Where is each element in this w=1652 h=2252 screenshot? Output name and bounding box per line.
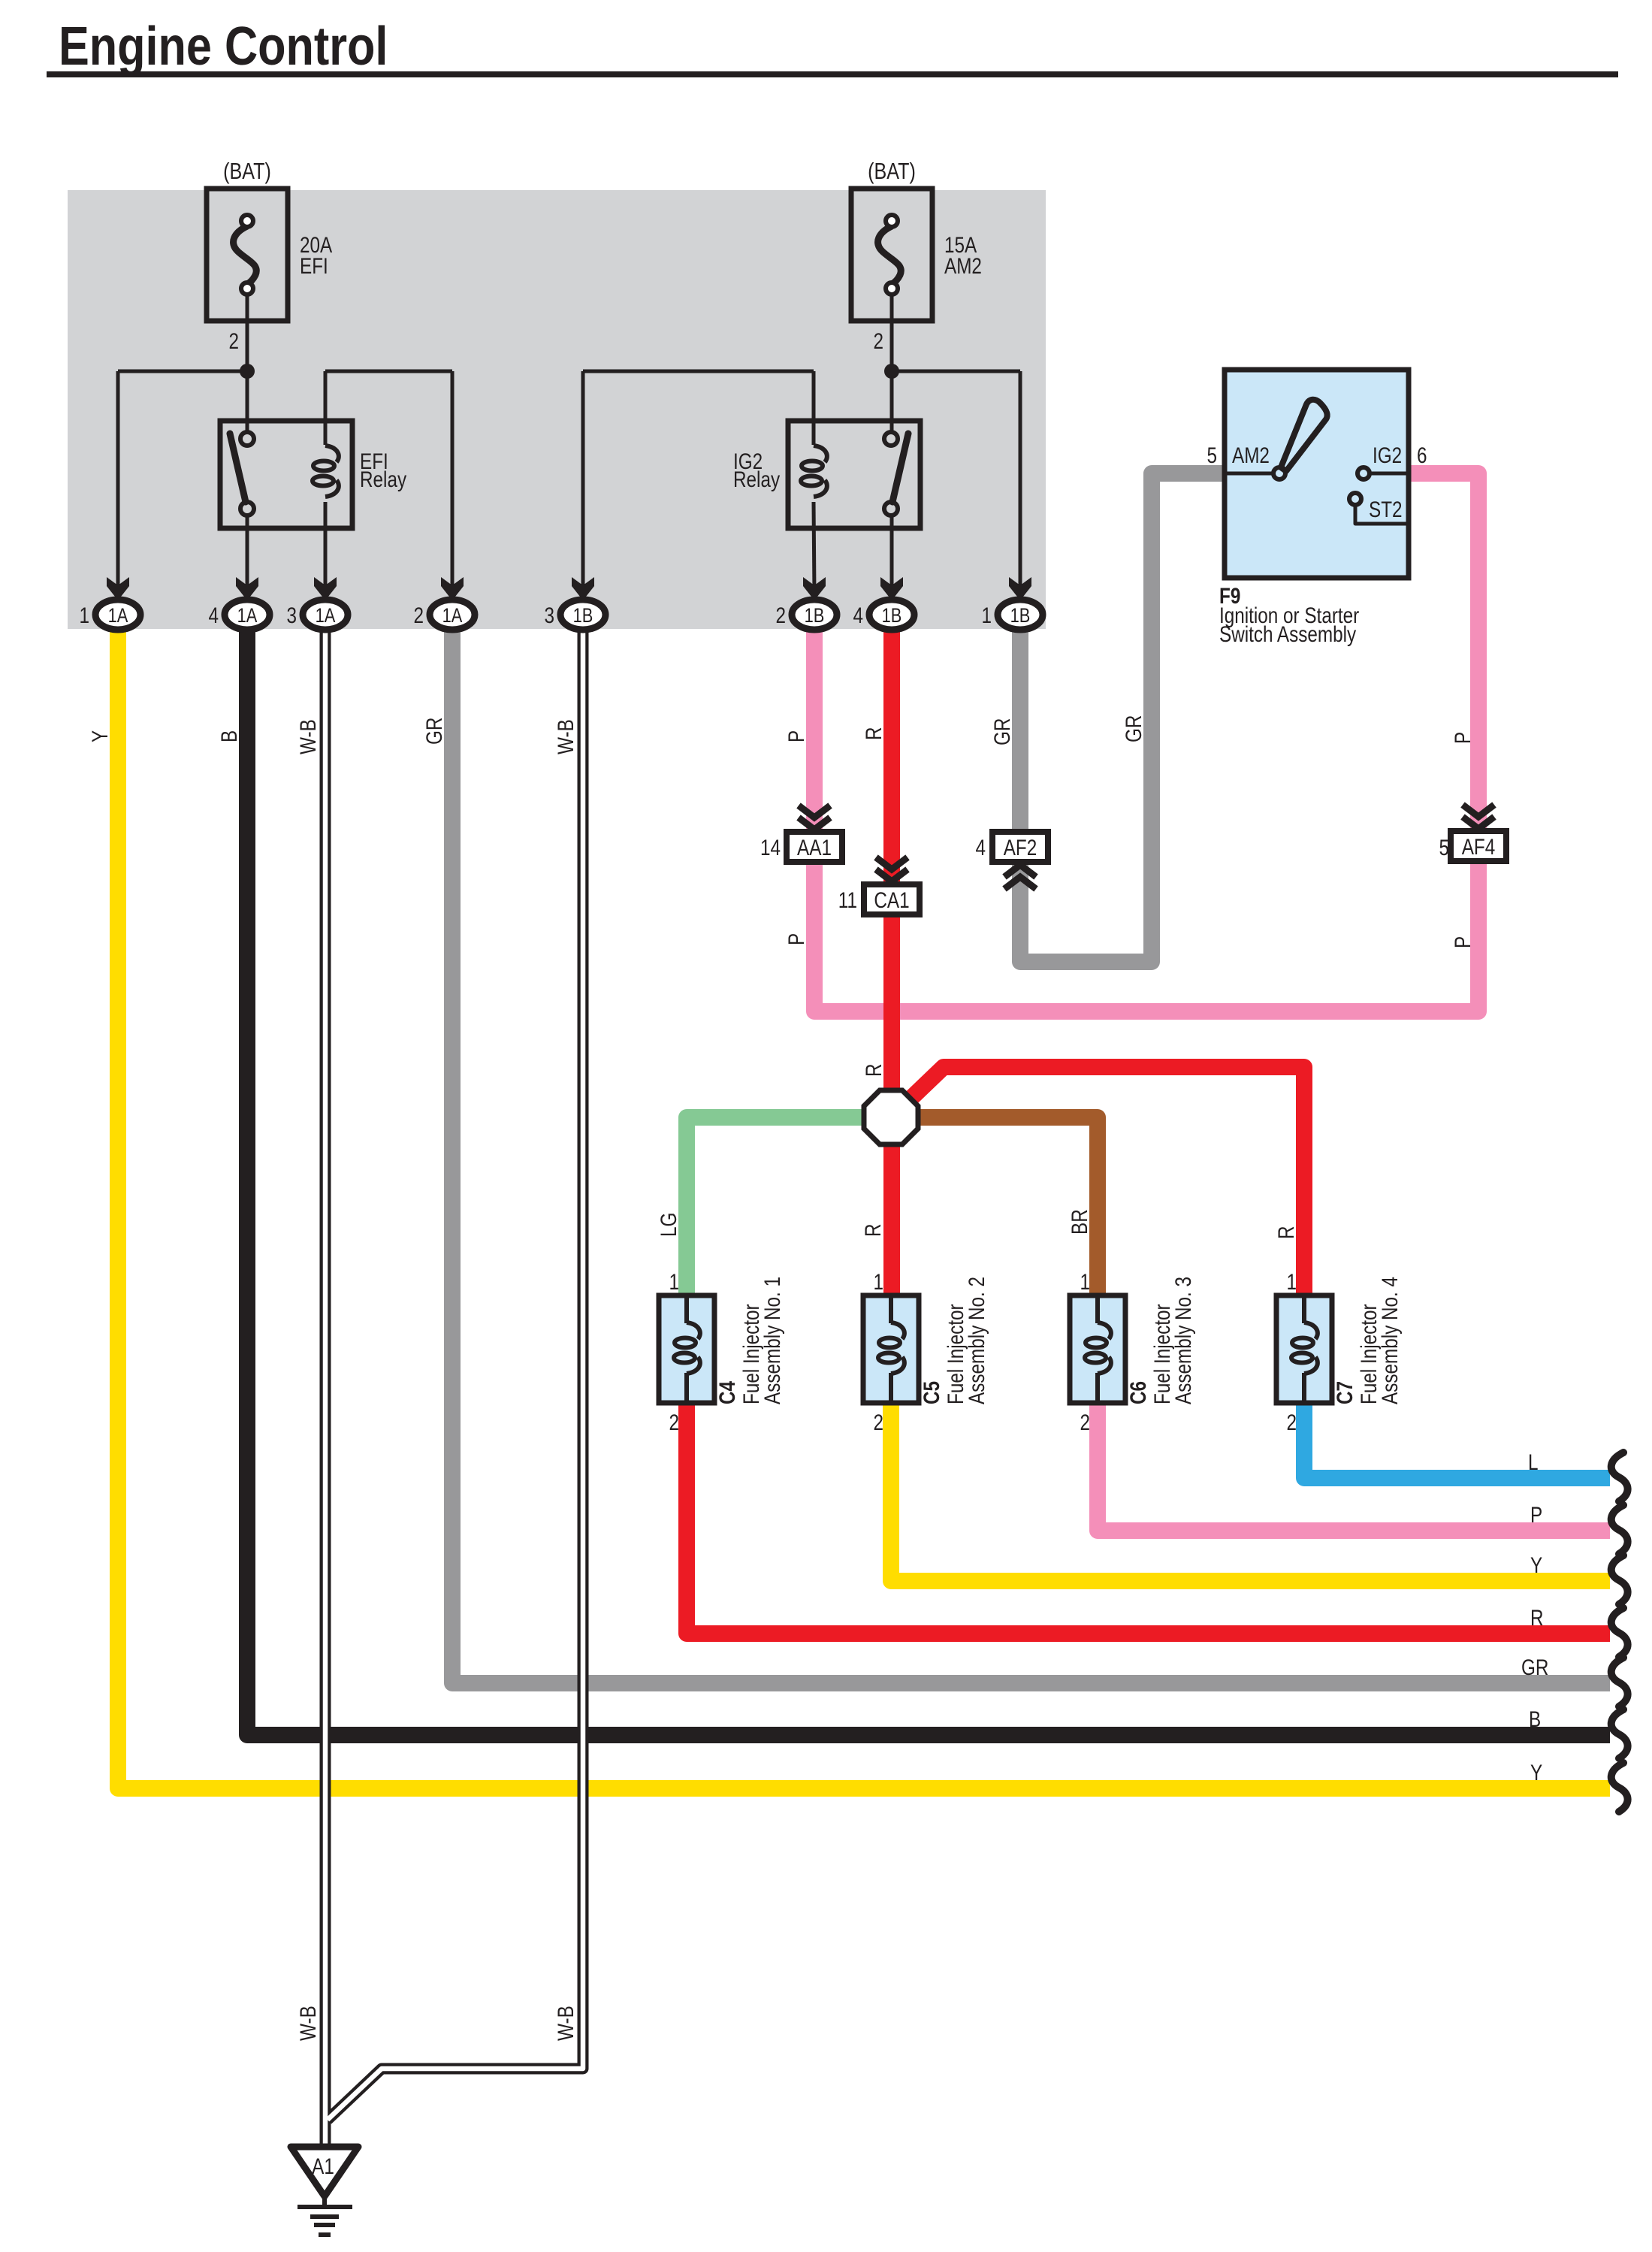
svg-text:R: R [1530, 1605, 1544, 1631]
svg-text:4: 4 [975, 835, 986, 860]
svg-text:1B: 1B [573, 605, 593, 627]
svg-text:14: 14 [760, 835, 781, 860]
wire IG2 coil top drop [812, 371, 816, 445]
relay EFI switch contact top [240, 432, 254, 446]
svg-text:Assembly No. 4: Assembly No. 4 [1377, 1277, 1403, 1404]
arrow into connector 1B pin 1 [1009, 577, 1031, 600]
svg-text:LG: LG [656, 1213, 681, 1237]
svg-text:W-B: W-B [553, 719, 578, 754]
svg-text:P: P [1450, 936, 1475, 948]
relay IG2 switch contact top [884, 432, 898, 446]
svg-text:2: 2 [228, 328, 239, 354]
ignition switch F9 box [1225, 370, 1409, 578]
wire GR AF2 to ignition AM2 [1020, 473, 1226, 962]
wire drop to 1A pin2 [451, 371, 455, 592]
chevron into AA1 [799, 806, 830, 830]
wire BR octagon to injector C6 [918, 1117, 1098, 1297]
svg-text:GR: GR [421, 718, 447, 745]
svg-text:P: P [784, 730, 809, 742]
wire L injector C7 to right edge [1304, 1401, 1610, 1478]
arrow into connector 1A pin 4 [236, 577, 258, 600]
connector 1B pin 2 oval [792, 600, 837, 630]
wire W-B 1A pin3 to ground core [323, 630, 328, 2149]
relay EFI switch blade [230, 434, 246, 502]
ground stem [322, 2196, 327, 2207]
svg-text:W-B: W-B [553, 2006, 578, 2041]
svg-text:1: 1 [981, 603, 992, 628]
svg-text:C7: C7 [1332, 1381, 1358, 1404]
connector AF4 [1451, 831, 1506, 861]
fuel injector C6 [1070, 1295, 1125, 1403]
svg-text:P: P [784, 933, 809, 945]
wire-continuation squiggle P [1611, 1505, 1628, 1554]
ground bar 3 [314, 2223, 335, 2227]
wire fuse AM2 to junction [890, 293, 894, 435]
svg-text:Assembly No. 2: Assembly No. 2 [964, 1277, 989, 1404]
relay EFI coil [313, 446, 339, 497]
svg-text:(BAT): (BAT) [868, 157, 916, 183]
wire W-B 1B pin3 elbow outer [328, 630, 583, 2120]
wire W-B 1B pin3 elbow core [328, 630, 583, 2120]
wire coil top drop [324, 371, 328, 445]
wire drop to 1B pin1 [1019, 371, 1022, 592]
wire R 1B pin4 to CA1 [883, 628, 900, 886]
connector 1B pin 1 oval [998, 600, 1043, 630]
svg-text:1: 1 [1286, 1269, 1297, 1295]
wire IG2 coil to 1B pin2 [814, 502, 814, 592]
svg-text:1: 1 [873, 1269, 883, 1295]
svg-text:2: 2 [873, 328, 883, 354]
F9 key wedge [1281, 400, 1327, 471]
svg-text:5: 5 [1439, 835, 1449, 860]
arrow into connector 1B pin 3 [572, 577, 594, 600]
fuel injector C4 [659, 1295, 714, 1403]
wire-continuation squiggle B [1611, 1709, 1628, 1758]
wire GR 1B pin1 to AF2 [1012, 628, 1028, 833]
title underline [47, 71, 1618, 77]
chevron into AF2 [1004, 865, 1036, 889]
wire R injector C4 to right edge [687, 1401, 1610, 1634]
F9 IG2 terminal line [1370, 472, 1409, 476]
svg-text:Y: Y [87, 730, 113, 742]
svg-text:2: 2 [775, 603, 786, 628]
svg-text:2: 2 [1286, 1410, 1297, 1435]
relay IG2 coil [801, 446, 827, 497]
svg-text:Y: Y [1530, 1760, 1542, 1785]
wire R octagon to injector C7 [908, 1067, 1304, 1297]
fuse 20A EFI [207, 189, 288, 321]
svg-text:W-B: W-B [295, 719, 321, 754]
svg-text:C6: C6 [1125, 1381, 1151, 1404]
svg-text:2: 2 [413, 603, 424, 628]
wire-continuation squiggle R [1611, 1608, 1628, 1657]
svg-text:BR: BR [1067, 1209, 1092, 1235]
svg-text:1A: 1A [316, 605, 336, 627]
svg-text:B: B [216, 730, 242, 742]
wire EFI coil top link [325, 370, 452, 373]
arrow into connector 1A pin 3 [314, 577, 337, 600]
svg-text:1B: 1B [1010, 605, 1031, 627]
svg-text:4: 4 [208, 603, 219, 628]
svg-text:5: 5 [1207, 443, 1217, 468]
ground bar 2 [310, 2214, 339, 2219]
svg-text:1: 1 [79, 603, 89, 628]
svg-text:Assembly No. 1: Assembly No. 1 [760, 1277, 785, 1404]
connector 1B pin 3 oval [560, 600, 606, 630]
wire LG octagon to injector C4 [687, 1117, 864, 1297]
wire bus EFI left branch [118, 370, 247, 373]
connector 1B pin 4 oval [869, 600, 914, 630]
arrow into connector 1B pin 2 [803, 577, 826, 600]
ground A1 triangle [291, 2147, 358, 2196]
relay IG2 switch contact bottom [884, 502, 898, 515]
svg-text:Relay: Relay [733, 467, 780, 492]
svg-text:C5: C5 [919, 1381, 944, 1404]
svg-text:L: L [1528, 1449, 1539, 1475]
svg-text:Switch Assembly: Switch Assembly [1219, 621, 1357, 647]
svg-text:AM2: AM2 [1232, 443, 1270, 468]
wire Y injector C5 to right edge [891, 1401, 1610, 1581]
relay EFI switch contact bottom [240, 502, 254, 515]
svg-text:B: B [1529, 1706, 1541, 1732]
arrow into connector 1A pin 1 [107, 577, 129, 600]
svg-text:4: 4 [853, 603, 863, 628]
connector 1A pin 2 oval [430, 600, 475, 630]
svg-text:GR: GR [989, 718, 1015, 745]
wire EFI coil to 1A pin3 [324, 502, 328, 592]
svg-text:1A: 1A [237, 605, 258, 627]
wire drop to 1A pin1 [116, 371, 120, 592]
svg-text:A1: A1 [312, 2154, 334, 2179]
connector 1A pin 3 oval [303, 600, 348, 630]
svg-text:AF2: AF2 [1004, 835, 1037, 860]
svg-text:Relay: Relay [360, 467, 406, 492]
arrow into connector 1A pin 2 [441, 577, 464, 600]
svg-text:2: 2 [669, 1410, 679, 1435]
svg-text:C4: C4 [714, 1380, 740, 1404]
svg-text:1A: 1A [442, 605, 463, 627]
connector AF2 [992, 832, 1048, 862]
svg-text:1B: 1B [882, 605, 902, 627]
node EFI junction [240, 364, 255, 379]
wire R octagon to injector C5 [883, 1141, 900, 1297]
relay IG2 switch blade [892, 434, 908, 502]
wire-continuation squiggle L [1611, 1452, 1628, 1501]
F9 IG2 contact [1358, 467, 1370, 479]
svg-text:1: 1 [1080, 1269, 1090, 1295]
svg-text:Y: Y [1530, 1552, 1542, 1578]
svg-text:GR: GR [1521, 1655, 1548, 1680]
svg-text:AM2: AM2 [944, 253, 982, 279]
svg-text:3: 3 [286, 603, 297, 628]
wire P 1B pin2 to AA1 [806, 628, 823, 833]
svg-text:EFI: EFI [300, 253, 328, 279]
connector 1A pin 1 oval [95, 600, 140, 630]
svg-text:R: R [1273, 1226, 1299, 1239]
svg-text:Assembly No. 3: Assembly No. 3 [1170, 1277, 1196, 1404]
fuel injector C7 [1276, 1295, 1332, 1403]
svg-text:AA1: AA1 [797, 835, 832, 860]
svg-text:R: R [861, 727, 886, 740]
ground bar 4 [319, 2232, 331, 2237]
svg-text:1A: 1A [108, 605, 128, 627]
wire EFI switch to 1A pin4 [246, 514, 249, 592]
F9 ST2 contact [1349, 493, 1361, 505]
wire B from 1A pin4 [247, 630, 1610, 1735]
svg-text:1B: 1B [805, 605, 825, 627]
relay IG2 box [788, 421, 920, 528]
svg-text:P: P [1530, 1502, 1542, 1528]
fuel injector C5 [863, 1295, 919, 1403]
relay/fuse block panel [68, 190, 1046, 629]
wire IG2 switch to 1B pin4 [890, 514, 894, 592]
wire-continuation squiggle GR [1611, 1658, 1628, 1706]
svg-text:ST2: ST2 [1369, 497, 1403, 522]
F9 AM2 terminal line [1225, 472, 1278, 476]
wire bus IG2 right branch [892, 370, 1020, 373]
svg-text:R: R [860, 1223, 886, 1237]
svg-text:1: 1 [669, 1269, 679, 1295]
svg-text:R: R [861, 1063, 886, 1077]
F9 ST2 terminal line [1355, 505, 1409, 524]
svg-text:(BAT): (BAT) [223, 157, 271, 183]
svg-text:2: 2 [873, 1410, 883, 1435]
arrow into connector 1B pin 4 [880, 577, 903, 600]
relay EFI box [220, 421, 352, 528]
wire P injector C6 to right edge [1098, 1401, 1610, 1531]
wire Y from 1A pin1 [118, 630, 1610, 1788]
svg-text:GR: GR [1121, 715, 1146, 742]
fuse 15A AM2 [851, 189, 932, 321]
connector CA1 [864, 884, 920, 914]
F9 AM2 contact [1273, 467, 1285, 479]
wire-continuation squiggle Y [1611, 1763, 1628, 1812]
svg-text:IG2: IG2 [1373, 443, 1402, 468]
svg-text:P: P [1450, 732, 1475, 744]
wire R CA1 to junction octagon [883, 912, 900, 1093]
svg-text:AF4: AF4 [1462, 834, 1496, 860]
wire GR from 1A pin2 [452, 630, 1610, 1683]
connector AA1 [787, 832, 842, 862]
chevron into CA1 [876, 857, 908, 881]
connector 1A pin 4 oval [225, 600, 270, 630]
wire P AA1 to AF4 to ignition IG2 [814, 473, 1478, 1011]
node IG2 junction [884, 364, 899, 379]
svg-text:11: 11 [838, 887, 857, 913]
svg-text:3: 3 [544, 603, 554, 628]
wire fuse EFI to junction [246, 293, 249, 435]
svg-text:W-B: W-B [295, 2006, 321, 2041]
chevron into AF4 [1463, 805, 1494, 829]
svg-text:2: 2 [1080, 1410, 1090, 1435]
junction octagon splice [864, 1090, 918, 1144]
svg-text:Engine Control: Engine Control [59, 17, 388, 77]
wire IG2 coil top link [583, 370, 814, 373]
svg-text:CA1: CA1 [874, 887, 909, 913]
svg-text:6: 6 [1417, 443, 1427, 468]
wire drop to 1B pin3 [581, 371, 585, 592]
ground bar 1 [297, 2205, 352, 2209]
wire-continuation squiggle Y [1611, 1555, 1628, 1604]
wire W-B 1A pin3 to ground outer [320, 630, 331, 2149]
